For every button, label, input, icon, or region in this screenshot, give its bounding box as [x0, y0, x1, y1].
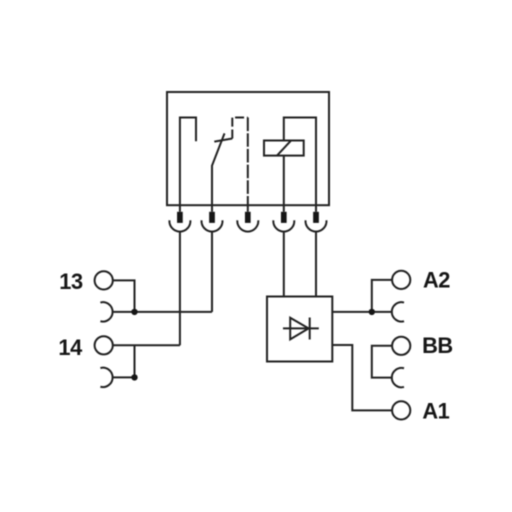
wire socket 13 to terminal 2	[113, 311, 212, 313]
junction dot 14	[131, 374, 137, 380]
bridge wire BB circle to BB socket	[372, 346, 392, 378]
mechanical linkage (dashed) upper part	[232, 118, 248, 139]
terminal 5 socket arc	[306, 220, 327, 231]
terminal 3 socket arc	[237, 220, 258, 231]
terminal 5 pin	[313, 212, 319, 223]
terminal 4 socket arc	[273, 220, 294, 231]
terminal 2 lead	[211, 205, 213, 212]
screw terminal circle BB	[392, 337, 410, 355]
svg-text:13: 13	[59, 269, 83, 294]
svg-text:A1: A1	[422, 398, 449, 423]
screw terminal circle A2	[392, 271, 410, 289]
terminal 3 lead	[247, 205, 249, 212]
bridge wire A2 circle to junction	[372, 280, 392, 312]
screw terminal circle A1	[392, 401, 410, 419]
junction dot 13	[131, 309, 137, 315]
relay coil K1 rectangle	[264, 141, 304, 156]
fixed contact of relay switch	[180, 118, 196, 206]
terminal 1 socket arc	[169, 220, 190, 231]
input module box (diode block)	[267, 297, 332, 362]
wire input module to A2 socket	[332, 311, 392, 313]
diode D1 lead line	[283, 327, 319, 329]
svg-text:BB: BB	[422, 333, 453, 358]
bridge wire 14 circle to 14 socket	[134, 345, 136, 377]
wire input module to A1 circle	[332, 345, 392, 410]
relay module enclosure box	[167, 92, 329, 205]
wire terminal 5 to input module	[315, 232, 317, 297]
terminal 2 pin	[209, 212, 215, 223]
diode D1 cathode bar	[309, 318, 311, 340]
terminal 5 lead	[315, 205, 317, 212]
wire terminal 4 to input module	[283, 232, 285, 297]
terminal 1 pin	[177, 212, 183, 223]
terminal 4 lead	[283, 205, 285, 212]
switch lever (movable contact)	[212, 133, 225, 205]
screw terminal circle 14	[95, 336, 113, 354]
terminal 2 socket arc	[202, 220, 223, 231]
wire circle 13 to junction	[113, 280, 135, 312]
wire terminal 1 to row 14	[179, 232, 181, 346]
svg-text:A2: A2	[423, 268, 450, 293]
terminal 1 lead	[179, 205, 181, 212]
terminal 3 pin	[245, 212, 251, 223]
coil circuit wiring	[284, 118, 316, 206]
socket arc BB	[392, 368, 404, 387]
junction dot A2	[369, 309, 375, 315]
wire socket 14 to bridge	[113, 376, 135, 378]
mechanical linkage (dashed) vertical to terminal 3	[247, 118, 249, 206]
screw terminal circle 13	[95, 271, 113, 289]
socket arc 14	[100, 368, 112, 387]
relay coil diagonal	[277, 141, 291, 156]
socket arc 13	[100, 302, 112, 321]
socket arc A2	[392, 302, 404, 321]
svg-text:14: 14	[58, 335, 82, 360]
diode D1 triangle	[290, 318, 308, 340]
wire circle 14 to terminal 1	[113, 344, 180, 346]
terminal 4 pin	[281, 212, 287, 223]
actuator tick on lever	[214, 139, 232, 142]
wire terminal 2 to row 13 socket	[211, 232, 213, 312]
